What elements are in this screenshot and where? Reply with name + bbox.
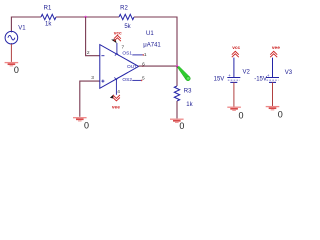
svg-text:V3: V3 <box>285 70 293 76</box>
op-amp minus input mark <box>101 55 104 57</box>
svg-text:7: 7 <box>121 44 124 50</box>
pin OS2 stub <box>132 79 141 81</box>
svg-text:1k: 1k <box>186 102 193 108</box>
svg-text:0: 0 <box>239 110 244 120</box>
wire V1 bottom to ground <box>10 44 12 62</box>
resistor R3 <box>174 86 179 101</box>
DC source V3 <box>266 77 279 79</box>
svg-text:vcc: vcc <box>114 31 122 36</box>
sine source V1 <box>5 31 18 44</box>
svg-text:1k: 1k <box>45 22 52 28</box>
op-amp plus input mark <box>101 80 104 82</box>
vcc power symbol chevrons (V2) <box>232 51 239 57</box>
svg-text:0: 0 <box>179 121 184 131</box>
pin OS1 end dot <box>143 54 145 56</box>
svg-text:OUT: OUT <box>127 64 137 70</box>
svg-text:OS1: OS1 <box>122 51 132 57</box>
black arrow at pin 7 <box>111 39 117 43</box>
svg-text:0: 0 <box>278 110 283 120</box>
black arrow at pin 4 <box>110 94 114 98</box>
svg-text:U1: U1 <box>146 31 154 37</box>
svg-text:μA741: μA741 <box>143 43 161 49</box>
wire junction A down to op-amp pin 2 <box>86 17 100 56</box>
pin 4 edge chevron <box>114 77 118 79</box>
svg-text:+: + <box>267 73 270 78</box>
svg-text:5: 5 <box>142 75 145 81</box>
pin 7 edge chevron <box>115 53 119 55</box>
svg-text:3: 3 <box>91 75 94 81</box>
svg-text:vee: vee <box>272 46 280 51</box>
wire R2 to feedback corner and down to output node <box>134 17 177 66</box>
svg-text:vcc: vcc <box>232 46 240 51</box>
wire R1 to R2 <box>56 16 119 18</box>
ground (V2) <box>227 107 241 110</box>
svg-text:R3: R3 <box>184 88 192 94</box>
svg-text:0: 0 <box>84 121 89 131</box>
svg-text:-15V: -15V <box>254 76 267 82</box>
op-amp V- pin 4 stub <box>115 79 117 95</box>
wire V2 minus to ground <box>233 82 235 107</box>
wire vee symbol to V3 plus <box>272 58 274 78</box>
svg-text:2: 2 <box>87 50 90 56</box>
svg-text:vee: vee <box>112 105 120 110</box>
vee power symbol chevrons (op-amp) <box>113 95 120 101</box>
wire op-amp output to node B <box>139 65 177 67</box>
svg-text:+: + <box>10 29 13 34</box>
svg-text:1: 1 <box>144 52 147 58</box>
resistor R2 <box>119 14 134 19</box>
wire R3 to ground <box>176 101 178 118</box>
pin OS1 stub <box>132 54 143 56</box>
junction node A (top bus to inverting input) <box>84 16 86 18</box>
svg-text:15V: 15V <box>214 76 225 82</box>
vee power symbol chevrons (V3) <box>270 51 277 57</box>
ground (V1) <box>5 63 19 66</box>
svg-text:4: 4 <box>117 89 120 95</box>
op-amp U1 triangle <box>100 45 139 89</box>
wire V1 top to horizontal bus <box>11 17 41 32</box>
wire ground to op-amp pin 3 <box>80 81 100 117</box>
wire V3 minus to ground <box>272 82 274 106</box>
op-amp V+ pin 7 stub <box>116 43 118 55</box>
wire vcc symbol to V2 plus <box>233 58 235 78</box>
wire node B down to R3 <box>176 66 178 86</box>
svg-text:+: + <box>228 73 231 78</box>
svg-text:V2: V2 <box>243 70 251 76</box>
DC source V2 <box>227 77 240 79</box>
vcc power symbol chevrons (op-amp) <box>114 35 121 41</box>
svg-text:R2: R2 <box>120 6 128 12</box>
voltage marker (green probe) <box>178 66 190 80</box>
pin 6 red connection tick <box>142 65 144 67</box>
ground (V3) <box>266 107 280 110</box>
svg-text:5k: 5k <box>124 24 131 30</box>
resistor R1 <box>41 14 56 19</box>
svg-text:OS2: OS2 <box>122 77 132 83</box>
pin OS2 end dot <box>141 80 143 82</box>
ground (R3) <box>170 119 184 122</box>
svg-text:V1: V1 <box>18 25 26 31</box>
junction node B (output) <box>176 65 178 67</box>
ground (pin 3) <box>73 118 87 121</box>
svg-text:0: 0 <box>14 65 19 75</box>
svg-text:R1: R1 <box>44 6 52 12</box>
